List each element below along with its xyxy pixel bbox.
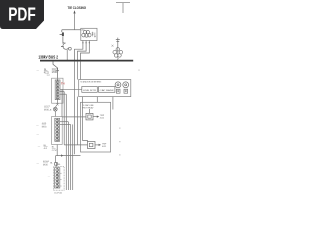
meter dial 1 (115, 82, 121, 88)
wire relay B output arrow (95, 144, 101, 146)
svg-text:—: — (37, 70, 40, 73)
wire CCVT2 output 1 (60, 121, 69, 123)
wire relay A output arrow (93, 116, 99, 118)
svg-text:(+): (+) (47, 75, 50, 77)
svg-text:TH: TH (61, 82, 65, 86)
CCVT unit 1 inner stack box (55, 80, 60, 100)
svg-text:4L12: 4L12 (100, 117, 104, 119)
wire riser F (72, 124, 74, 190)
CCVT unit 3 outer box (53, 167, 64, 191)
node faint margin marks (119, 70, 140, 156)
wire junction horizontal (62, 29, 81, 31)
svg-text:—: — (36, 124, 39, 127)
CCVT unit 1 outer box (52, 78, 63, 103)
svg-text:MOD: MOD (43, 165, 48, 167)
node x tap mark (112, 45, 114, 47)
svg-text:BL: BL (58, 164, 61, 166)
wire junction to unit2 (54, 111, 56, 116)
bus 138kV BUS 2 (40, 60, 133, 62)
wire riser H (77, 61, 79, 79)
surge arrester cross (116, 38, 120, 48)
svg-text:—: — (37, 133, 40, 136)
capacitor bank cluster (113, 48, 123, 61)
wire riser I (80, 61, 82, 79)
metering relay block 1 (82, 87, 98, 93)
svg-text:—: — (37, 162, 40, 165)
svg-text:MOD: MOD (42, 127, 47, 129)
transformer bank T1 box (81, 28, 97, 40)
wire inside relay panel to element B (83, 102, 88, 141)
svg-text:PDF: PDF (8, 3, 36, 24)
transformer T1 neutral mark (92, 32, 96, 37)
wire riser B (63, 92, 65, 145)
disconnect hook D1 (61, 43, 71, 60)
wire feeder drop with arrow (73, 10, 75, 30)
wire CCVT2 output 2 (60, 123, 71, 125)
wire relay A feed (62, 116, 86, 118)
pdf badge (0, 0, 44, 29)
CCVT unit 1 CT coils (56, 80, 59, 100)
wire drop arrowheads (82, 42, 90, 44)
relay panel box (81, 102, 111, 152)
wire riser G outside relay box (74, 61, 76, 154)
metering relay block 2 (99, 87, 115, 93)
wire bus drop to CCVT 1 (53, 61, 59, 80)
relay element B (88, 142, 96, 149)
wire unit1 to junction (55, 100, 57, 107)
node faint mark right of bus (118, 57, 119, 60)
svg-text:TIE CLOSING: TIE CLOSING (68, 6, 87, 10)
meter dial 2 (123, 82, 129, 88)
wire unit2 bottom drop (56, 145, 58, 156)
svg-text:MOD: MOD (52, 72, 58, 74)
svg-text:138kV BUS 2: 138kV BUS 2 (38, 55, 58, 60)
wire riser E (70, 124, 72, 190)
meter test switch 1 (116, 89, 120, 93)
CCVT unit 3 inner stack box (55, 168, 60, 188)
svg-text:—: — (38, 145, 41, 148)
wire line 3 horizontal with arrow (56, 154, 81, 162)
relay element A (86, 109, 93, 120)
wire relay B feed (64, 144, 87, 146)
wire riser A (61, 89, 63, 117)
node fork mark (56, 104, 59, 106)
CCVT unit 2 inner stack box (55, 118, 60, 141)
node top-right corner tee (116, 3, 130, 13)
wire riser F2 (77, 97, 79, 145)
CCVT unit 3 CT coils (56, 168, 59, 188)
wire riser C (65, 94, 67, 190)
wire CCVT1 output 2 (60, 91, 64, 93)
svg-text:LINE MTR: LINE MTR (83, 90, 97, 92)
grounding switch circle (53, 107, 57, 111)
svg-text:MOD-B: MOD-B (44, 110, 52, 112)
CCVT unit 2 outer box (52, 117, 63, 145)
wire riser D (67, 122, 69, 190)
wire CCVT1 output to metering (60, 88, 82, 90)
meter test switch 2 (124, 89, 128, 93)
wire metering drops (83, 97, 113, 110)
svg-text:CAP BANK: CAP BANK (100, 89, 115, 92)
fuse on unit 3 entry (55, 162, 58, 167)
metering box (79, 80, 131, 97)
svg-text:PROT RELAY: PROT RELAY (82, 106, 94, 109)
svg-text:TS CAPACITOR LINE METERING: TS CAPACITOR LINE METERING (80, 81, 101, 84)
svg-text:—: — (48, 176, 51, 178)
wire CCVT1 output 3 (60, 93, 66, 95)
wire unit 3 taps (60, 173, 62, 186)
transformer T1 windings (82, 30, 91, 37)
svg-text:4L31: 4L31 (102, 146, 106, 148)
breaker switch on left branch (60, 30, 64, 44)
svg-text:BL: BL (50, 163, 53, 165)
wire transformer secondary drops (75, 41, 90, 61)
CCVT unit 2 CT coils (56, 118, 59, 141)
svg-text:4L2: 4L2 (44, 148, 48, 150)
svg-text:CCVT-A: CCVT-A (54, 191, 62, 194)
